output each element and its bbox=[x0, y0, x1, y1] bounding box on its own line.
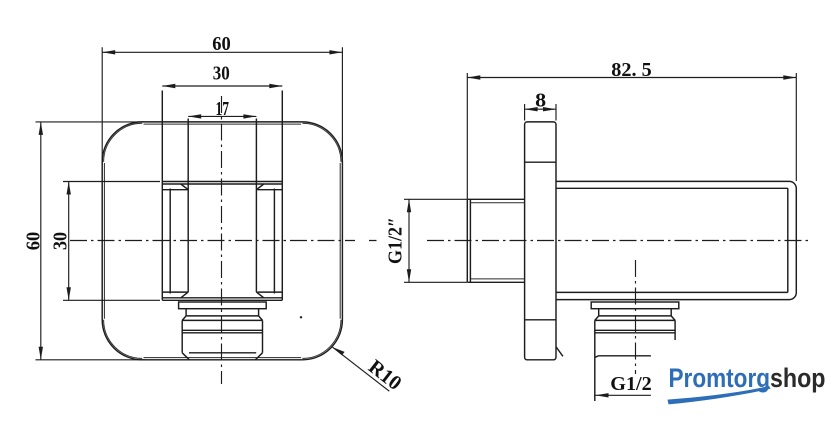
svg-text:Promtorgshop: Promtorgshop bbox=[669, 363, 826, 393]
side view horizontal centerline bbox=[369, 240, 812, 242]
front view bracket chamfer diagonals bbox=[181, 184, 264, 298]
svg-text:17: 17 bbox=[215, 98, 229, 120]
svg-text:30: 30 bbox=[213, 62, 230, 84]
dimension 60 top bbox=[102, 33, 342, 163]
side view outlet centerline bbox=[635, 260, 637, 374]
front view vertical centerline bbox=[221, 96, 223, 384]
dimension 30 left bbox=[50, 182, 161, 301]
dimension 60 left bbox=[23, 122, 146, 360]
svg-text:82. 5: 82. 5 bbox=[611, 59, 652, 81]
svg-text:60: 60 bbox=[212, 33, 231, 55]
side view outlet ring bbox=[595, 309, 675, 321]
svg-text:G1/2: G1/2 bbox=[610, 373, 652, 395]
svg-text:60: 60 bbox=[23, 232, 45, 251]
side view body tube bbox=[556, 181, 796, 299]
dimension G1/2 inch (left, rotated) bbox=[385, 199, 468, 282]
dimension G1/2 bottom bbox=[596, 373, 652, 398]
leader R10 bbox=[332, 347, 405, 395]
dimension 17 top bbox=[188, 98, 256, 120]
front view horizontal centerline bbox=[70, 240, 355, 242]
front view outlet threaded cylinder bbox=[182, 320, 262, 359]
side view wall plate bbox=[525, 122, 563, 360]
front view bracket outer rails bbox=[162, 182, 282, 301]
side view outlet flange bbox=[591, 302, 679, 309]
side view outlet threaded cylinder bbox=[595, 320, 675, 401]
front view outlet ring bbox=[182, 309, 262, 321]
dimension 8 bbox=[525, 90, 556, 121]
front view outlet flange bbox=[179, 302, 267, 309]
front view body inner contour bbox=[104, 123, 341, 358]
front view bracket slot verticals (17 extension) bbox=[188, 119, 256, 293]
svg-text:30: 30 bbox=[50, 232, 72, 250]
svg-text:G1/2″: G1/2″ bbox=[385, 217, 407, 264]
side view inlet nipple bbox=[467, 199, 524, 282]
front view bracket side verticals bbox=[162, 91, 282, 301]
dimension 82.5 bbox=[467, 59, 796, 199]
logo Promtorgshop bbox=[669, 363, 826, 393]
front view small dot bbox=[300, 316, 302, 318]
front view body rounded-square outline bbox=[102, 122, 342, 360]
dimension 30 top bbox=[162, 62, 282, 88]
logo swoosh bbox=[668, 386, 771, 404]
svg-text:8: 8 bbox=[535, 90, 546, 112]
